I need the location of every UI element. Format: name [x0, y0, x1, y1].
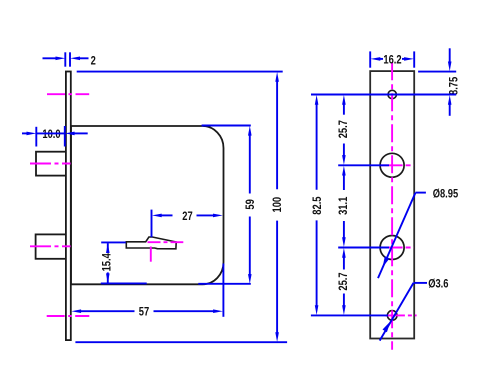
dimension 16.2 lines [370, 51, 414, 67]
dimension 10.0 lines [22, 126, 88, 147]
dimension 2 lines [43, 52, 89, 66]
dimension 2 arrows [56, 57, 81, 61]
svg-text:Ø8.95: Ø8.95 [433, 187, 458, 200]
dimension 15.4 lines [101, 242, 147, 283]
hole bottom small [387, 311, 397, 321]
dimension 8.75 lines [418, 48, 456, 116]
svg-text:100: 100 [271, 197, 284, 213]
svg-text:10.0: 10.0 [42, 128, 60, 141]
svg-text:Ø3.6: Ø3.6 [428, 278, 448, 291]
svg-text:25.7: 25.7 [337, 272, 350, 290]
svg-text:31.1: 31.1 [337, 197, 350, 215]
centerline hole2 front [381, 247, 414, 249]
dimension 27 lines [152, 210, 214, 238]
extension line hole upper big [338, 164, 389, 166]
faceplate side view [66, 72, 71, 341]
centerline hole1 front [381, 164, 414, 166]
faceplate front view [370, 71, 414, 338]
dimension 57 arrows [71, 309, 223, 313]
leader diameter 3.6 arrow [383, 321, 391, 332]
key centerline vertical [150, 247, 152, 262]
centerline upper hole side view [47, 93, 89, 95]
centerline lower bolt [30, 245, 71, 247]
leader diameter 3.6 [380, 283, 427, 341]
extension line hole top [311, 94, 456, 96]
dimension 59 arrows [248, 126, 252, 284]
key lever [126, 237, 176, 249]
dimension 100 lines [75, 72, 287, 343]
key centerline horizontal [148, 241, 184, 243]
dimension 100 arrows [275, 72, 279, 342]
upper bolt [36, 152, 66, 176]
leader diameter 8.95 [378, 193, 426, 279]
dimension 27 arrows [152, 214, 223, 218]
dimension 82.5 lines [316, 104, 318, 306]
svg-text:2: 2 [91, 54, 96, 67]
dimension 8.75 arrows [448, 62, 452, 105]
hole upper big [380, 153, 404, 177]
dimension 16.2 arrows [371, 57, 414, 61]
centerline hole3 front [385, 314, 417, 316]
hole top small [388, 90, 396, 98]
svg-text:57: 57 [139, 306, 149, 319]
faceplate centerline vertical [391, 62, 393, 349]
svg-text:16.2: 16.2 [383, 53, 401, 66]
centerline upper bolt [30, 163, 71, 165]
hole lower big [380, 236, 404, 260]
svg-text:82.5: 82.5 [311, 196, 324, 214]
dimension chain lines [343, 104, 345, 306]
extension line hole lower big [338, 247, 389, 249]
leader diameter 8.95 arrow [383, 256, 390, 267]
svg-text:27: 27 [182, 210, 192, 223]
svg-text:15.4: 15.4 [100, 253, 113, 271]
dimension chain arrows [342, 95, 346, 315]
svg-text:25.7: 25.7 [337, 120, 350, 138]
dimension 82.5 arrows [315, 95, 319, 315]
lower bolt [36, 234, 66, 258]
svg-text:8.75: 8.75 [447, 77, 460, 95]
centerline lower hole side view [47, 315, 90, 317]
dimension 57 lines [81, 264, 224, 317]
extension line hole bottom [311, 314, 388, 316]
dimension 10.0 arrows [27, 132, 75, 136]
svg-text:59: 59 [244, 199, 257, 209]
dimension 15.4 arrows [106, 243, 110, 283]
dimension 59 lines [198, 126, 251, 284]
lock body outline [71, 126, 224, 284]
